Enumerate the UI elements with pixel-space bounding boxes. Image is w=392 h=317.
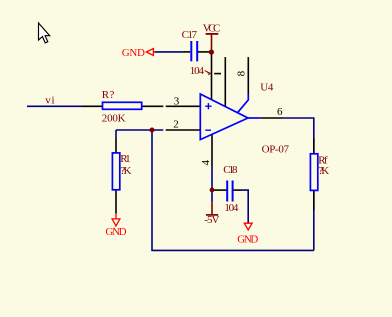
svg-text:R?: R? bbox=[102, 89, 115, 101]
svg-text:C18: C18 bbox=[223, 164, 238, 176]
svg-text:200K: 200K bbox=[102, 112, 126, 124]
svg-text:GND: GND bbox=[122, 47, 145, 59]
svg-text:?K: ?K bbox=[120, 165, 131, 177]
svg-text:U4: U4 bbox=[260, 82, 274, 94]
svg-text:GND: GND bbox=[105, 226, 126, 238]
svg-text:-5V: -5V bbox=[204, 214, 219, 226]
svg-text:3: 3 bbox=[174, 95, 180, 107]
svg-text:104: 104 bbox=[190, 65, 205, 77]
svg-text:GND: GND bbox=[237, 234, 258, 246]
svg-text:OP-07: OP-07 bbox=[262, 144, 290, 156]
svg-text:R1: R1 bbox=[120, 153, 130, 165]
svg-text:2: 2 bbox=[173, 119, 179, 131]
svg-text:8: 8 bbox=[236, 70, 248, 76]
svg-text:vi: vi bbox=[45, 94, 54, 106]
svg-text:C17: C17 bbox=[182, 29, 198, 41]
svg-text:104: 104 bbox=[224, 202, 239, 214]
svg-text:?K: ?K bbox=[318, 165, 329, 177]
svg-text:VCC: VCC bbox=[203, 22, 221, 34]
svg-text:4: 4 bbox=[200, 159, 212, 165]
svg-text:6: 6 bbox=[277, 106, 283, 118]
